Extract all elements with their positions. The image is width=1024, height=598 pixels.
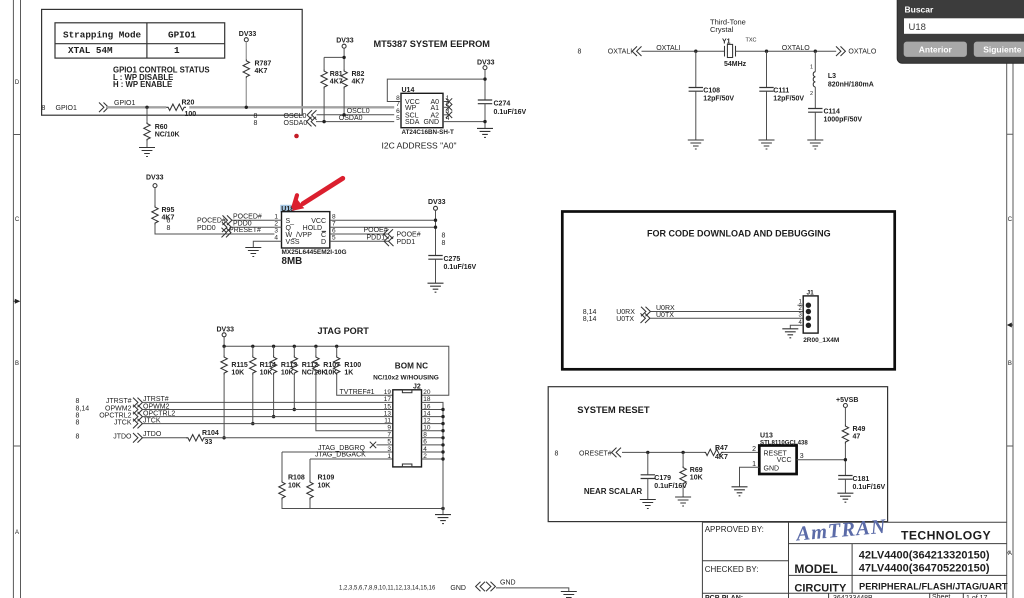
J1 pin 1 <box>798 300 812 308</box>
op-amp U14 AT24C16BN-SH-T body <box>401 87 443 128</box>
junction GPIO1/R60 <box>145 106 148 109</box>
junction C108 <box>694 50 697 53</box>
sheet frame right border <box>1007 0 1013 598</box>
svg-text:8,14: 8,14 <box>583 316 597 323</box>
connector chevron U0TX <box>641 313 650 323</box>
wire OSCL0 to U14 SCL <box>317 114 395 116</box>
U14 pin 6 SCL <box>396 108 419 119</box>
wire R60 to ground <box>146 141 148 148</box>
svg-text:VSS: VSS <box>286 239 300 246</box>
U18 pin 8 VCC <box>311 214 435 225</box>
svg-text:1: 1 <box>174 45 180 56</box>
svg-text:OXTALO: OXTALO <box>848 49 876 56</box>
svg-text:5: 5 <box>332 235 336 242</box>
junction VCC/R49 <box>844 458 847 461</box>
svg-text:TECHNOLOGY: TECHNOLOGY <box>901 529 991 543</box>
svg-text:R115: R115 <box>231 362 247 369</box>
wire JTDO to R104 <box>142 437 186 439</box>
title block grid <box>702 522 1006 598</box>
svg-text:8: 8 <box>76 398 80 405</box>
svg-text:1000pF/50V: 1000pF/50V <box>824 116 863 123</box>
U18 pin 5 D <box>321 235 389 246</box>
svg-text:C: C <box>1008 217 1013 223</box>
svg-text:3: 3 <box>274 227 278 234</box>
resistor R82 4K7 <box>341 70 365 89</box>
svg-text:8: 8 <box>76 412 80 419</box>
svg-text:TVTREF#1: TVTREF#1 <box>340 389 375 396</box>
svg-text:SDA: SDA <box>405 119 420 126</box>
svg-text:ORESET#: ORESET# <box>579 451 612 458</box>
ground (R69) <box>675 497 691 506</box>
connector chevron JTRST# <box>133 398 142 408</box>
svg-text:4K7: 4K7 <box>715 454 728 461</box>
wire R112 to OPWM2 row <box>293 375 295 410</box>
svg-text:4: 4 <box>446 115 450 122</box>
wire DV33 rail to R81/R82 <box>324 48 344 69</box>
svg-text:Siguiente: Siguiente <box>983 44 1022 54</box>
svg-text:R787: R787 <box>255 61 272 68</box>
resistor R109 10K <box>307 475 335 500</box>
annotation red arrow pointing to U18 <box>292 178 343 211</box>
flash U18 MX25L6445 body <box>282 212 330 248</box>
svg-text:C108: C108 <box>703 88 720 95</box>
svg-text:8: 8 <box>76 434 80 441</box>
search dialog input field <box>904 18 1024 34</box>
svg-text:MT5387 SYSTEM EEPROM: MT5387 SYSTEM EEPROM <box>374 39 491 49</box>
svg-text:FOR CODE DOWNLOAD AND DEBUGGIN: FOR CODE DOWNLOAD AND DEBUGGING <box>647 229 831 239</box>
wire R108/R109 to ground bus <box>282 500 443 509</box>
title Third-Tone Crystal <box>710 17 746 34</box>
U18 pin 7 HOLD_ <box>303 221 436 232</box>
capacitor C114 1000pF/50V <box>808 87 862 140</box>
wire ORESET# to U13 pin 2 <box>622 451 759 453</box>
svg-text:C: C <box>15 217 20 223</box>
connector chevron OXTALI <box>632 46 641 56</box>
J2 left pin numbers <box>384 389 392 460</box>
svg-text:NEAR SCALAR: NEAR SCALAR <box>584 487 642 496</box>
svg-text:GND: GND <box>764 465 780 472</box>
svg-text:1,2,3,5,6,7,8,9,10,11,12,13,14: 1,2,3,5,6,7,8,9,10,11,12,13,14,15,16 <box>339 586 436 592</box>
resistor R113 10K <box>270 346 297 376</box>
svg-text:I2C ADDRESS "A0": I2C ADDRESS "A0" <box>382 140 457 150</box>
svg-text:13: 13 <box>384 410 392 417</box>
junction rail R114 <box>251 345 254 348</box>
wire R100 to TVTREF#1 / J2 pin 19 <box>337 375 393 396</box>
junction bus pin16 <box>441 408 444 411</box>
wire PDD0 to U18 pin2 <box>231 226 274 228</box>
svg-text:33: 33 <box>205 439 213 446</box>
junction rail R100 <box>335 345 338 348</box>
power DV33 (R787) <box>239 31 257 42</box>
junction bus pin12 <box>441 422 444 425</box>
U14 pin 7 WP <box>396 101 416 112</box>
crystal Y1 54MHz <box>722 38 757 68</box>
ground (R60) <box>139 148 155 157</box>
U14 pin 1 A0 no-connect <box>430 95 452 106</box>
wire JTRST# to J2 pin 17 <box>142 401 392 403</box>
svg-text:JTCK: JTCK <box>114 419 132 426</box>
svg-text:6: 6 <box>332 227 336 234</box>
svg-text:VCC: VCC <box>311 218 326 225</box>
ground (U13 GND) <box>732 487 748 496</box>
wire GND net <box>496 588 569 592</box>
U14 pin 5 SDA <box>396 115 420 126</box>
svg-text:OXTALO: OXTALO <box>782 45 810 52</box>
svg-text:3: 3 <box>387 446 391 453</box>
junction bus pin14 <box>441 415 444 418</box>
svg-text:VCC: VCC <box>777 457 792 464</box>
svg-text:TXC: TXC <box>746 38 757 44</box>
svg-text:H : WP ENABLE: H : WP ENABLE <box>113 80 172 89</box>
junction R115/JTDO <box>222 436 225 439</box>
svg-text:POCED#: POCED# <box>197 218 226 225</box>
wire Y1 to OXTALO <box>736 50 837 52</box>
svg-text:SYSTEM RESET: SYSTEM RESET <box>577 404 650 415</box>
svg-text:5: 5 <box>387 439 391 446</box>
connector chevron OPCTRL2 <box>133 412 142 422</box>
svg-text:10K: 10K <box>288 483 301 490</box>
svg-text:15: 15 <box>384 403 392 410</box>
resistor R107 10K <box>313 346 340 376</box>
junction bus pin8 <box>441 436 444 439</box>
svg-text:C274: C274 <box>494 101 511 108</box>
capacitor C275 0.1uF/16V <box>428 256 476 284</box>
svg-text:1: 1 <box>810 65 813 71</box>
J1 pin 3 <box>798 313 811 321</box>
svg-text:R104: R104 <box>202 430 219 437</box>
junction C179 <box>646 451 649 454</box>
wire JTCK to J2 pin 11 <box>142 423 392 425</box>
frame left arrow marker <box>13 299 20 304</box>
svg-text:C: C <box>321 232 326 239</box>
debug section box <box>562 212 894 370</box>
svg-text:U18: U18 <box>909 22 926 33</box>
wire C274 to ground <box>484 104 486 129</box>
frame right arrow marker <box>1007 323 1013 328</box>
svg-text:B: B <box>15 361 19 367</box>
U13 pin 3 VCC <box>777 453 846 464</box>
wire DV33 down to C274 <box>484 70 486 100</box>
svg-text:8: 8 <box>167 225 171 232</box>
svg-text:8: 8 <box>254 120 258 127</box>
connector chevron JTCK <box>133 419 142 429</box>
ground (C179) <box>640 500 656 509</box>
svg-text:A: A <box>15 530 19 536</box>
junction C111 <box>765 50 768 53</box>
connector chevron GND left <box>476 582 485 592</box>
svg-text:OSDA0: OSDA0 <box>284 120 308 127</box>
junction HOLD rail <box>434 226 437 229</box>
wire OPCTRL2 to J2 pin 13 <box>142 416 392 418</box>
junction bus pin10 <box>441 429 444 432</box>
svg-text:4K7: 4K7 <box>352 79 365 86</box>
svg-text:U0TX: U0TX <box>616 316 634 323</box>
inductor L3 820nH/180mA <box>810 51 874 97</box>
no-connect X J2 pin 5 <box>370 442 393 448</box>
svg-text:9: 9 <box>387 425 391 432</box>
power DV33 (U18/C275) <box>428 199 446 210</box>
wire U0TX to J1 pin 3 <box>650 317 803 319</box>
svg-text:L3: L3 <box>828 73 836 80</box>
svg-text:GPIO1: GPIO1 <box>56 105 78 112</box>
ground (GND net) <box>561 592 577 598</box>
ground (C275) <box>428 283 444 292</box>
wire POCED# to U18 pin1 <box>232 219 275 221</box>
svg-text:WP: WP <box>405 105 417 112</box>
J1 pin 4 <box>790 320 811 329</box>
svg-text:A1: A1 <box>430 105 439 112</box>
ground (C114) <box>807 140 823 149</box>
svg-text:DV33: DV33 <box>336 38 354 45</box>
svg-text:AT24C16BN-SH-T: AT24C16BN-SH-T <box>402 129 455 136</box>
svg-text:R100: R100 <box>344 362 361 369</box>
resistor R114 10K <box>250 346 276 376</box>
svg-text:R47: R47 <box>715 445 728 452</box>
wire R81 to OSDA0 <box>323 89 325 122</box>
svg-text:2: 2 <box>752 446 756 453</box>
svg-text:DV33: DV33 <box>239 31 257 38</box>
power DV33 (R81/R82) <box>336 38 354 49</box>
svg-text:PRESET#: PRESET# <box>229 227 261 234</box>
wire DV33 to R787 <box>245 42 247 60</box>
connector chevron OPWM2 <box>133 405 142 415</box>
wire R113 to OPCTRL2 row <box>273 375 275 417</box>
svg-text:R20: R20 <box>182 100 195 107</box>
svg-text:OSCL0: OSCL0 <box>347 108 370 115</box>
connector chevron U0RX <box>641 307 650 317</box>
svg-text:2: 2 <box>810 91 813 97</box>
resistor R20 100 <box>166 100 196 119</box>
junction R82/OSCL0 <box>342 113 345 116</box>
svg-text:54MHz: 54MHz <box>724 61 747 68</box>
junction rail R107 <box>314 345 317 348</box>
svg-text:APPROVED BY:: APPROVED BY: <box>705 525 764 534</box>
power DV33 (JTAG rail) <box>217 326 235 337</box>
U18 pin 6 C <box>321 227 389 238</box>
U13 pin 1 GND <box>740 461 780 487</box>
junction rail R115 <box>222 345 225 348</box>
svg-text:PDD1: PDD1 <box>367 234 386 241</box>
svg-text:R60: R60 <box>155 124 168 131</box>
U18 search highlight <box>280 205 294 213</box>
svg-text:8: 8 <box>42 105 46 112</box>
wire R107 to J2 pin 9 <box>316 375 393 431</box>
junction R82 top <box>342 56 345 59</box>
connector chevron ORESET# <box>612 448 621 458</box>
svg-text:+5VSB: +5VSB <box>836 397 858 404</box>
reset IC U13 body <box>759 446 796 475</box>
svg-text:10K: 10K <box>690 475 703 482</box>
resistor R81 4K7 <box>321 70 343 89</box>
svg-text:XTAL 54M: XTAL 54M <box>68 45 113 56</box>
svg-text:3: 3 <box>800 453 804 460</box>
svg-text:8MB: 8MB <box>282 256 303 267</box>
resistor R100 1K <box>334 346 362 376</box>
svg-text:NC/10x2 W/HOUSING: NC/10x2 W/HOUSING <box>373 374 439 381</box>
svg-text:DV33: DV33 <box>146 175 164 182</box>
capacitor C179 0.1uF/16V <box>641 452 688 499</box>
svg-text:10K: 10K <box>281 370 294 377</box>
svg-text:10K: 10K <box>325 370 338 377</box>
svg-text:JTAG_DBGACK: JTAG_DBGACK <box>315 451 366 458</box>
junction DV33/VCC rail <box>483 77 486 80</box>
search dialog button Siguiente <box>974 42 1024 57</box>
svg-text:POCED#: POCED# <box>233 213 262 220</box>
junction R69 <box>681 451 684 454</box>
svg-text:1: 1 <box>274 214 278 221</box>
svg-text:47: 47 <box>853 434 861 441</box>
svg-text:BOM NC: BOM NC <box>395 362 428 371</box>
svg-text:8: 8 <box>254 113 258 120</box>
wire +5VSB to R49 <box>844 408 846 425</box>
svg-text:GPIO1: GPIO1 <box>168 30 196 41</box>
wire DV33 to C275 <box>435 210 437 255</box>
wire R115 to JTDO row <box>223 375 225 438</box>
svg-text:DV33: DV33 <box>217 326 235 333</box>
svg-text:C179: C179 <box>654 475 671 482</box>
U18 pin 1 S_ <box>274 214 294 225</box>
connector chevron GND right <box>486 582 495 592</box>
U14 pin 4 GND <box>423 115 485 126</box>
connector chevron OSDA0 <box>307 117 316 127</box>
svg-text:0.1uF/16V: 0.1uF/16V <box>444 264 477 271</box>
svg-text:Anterior: Anterior <box>919 44 953 54</box>
resistor R60 NC/10K <box>144 122 180 141</box>
svg-text:0.1uF/16V: 0.1uF/16V <box>494 109 527 116</box>
svg-text:R49: R49 <box>853 426 866 433</box>
svg-text:10K: 10K <box>318 483 331 490</box>
U13 pin 2 RESET <box>752 446 787 458</box>
svg-text:R82: R82 <box>352 71 365 78</box>
svg-text:NC/10K: NC/10K <box>302 370 327 377</box>
wire DV33 pull-up rail <box>224 337 449 396</box>
U18 pin 3 W_/VPP <box>274 227 312 238</box>
connector chevron GPIO1 <box>99 103 108 113</box>
svg-text:OSCL0: OSCL0 <box>284 113 307 120</box>
svg-text:Buscar: Buscar <box>905 5 935 15</box>
junction rail R113 <box>272 345 275 348</box>
ground (C181) <box>837 493 853 502</box>
svg-text:0.1uF/16V: 0.1uF/16V <box>853 484 886 491</box>
capacitor C274 0.1uF/16V <box>478 100 527 116</box>
resistor R49 47 <box>842 425 865 444</box>
wire OSDA0 to U14 SDA <box>316 121 394 123</box>
junction bus pin2 <box>441 457 444 460</box>
junction bus pin4 <box>441 450 444 453</box>
svg-text:OPWM2: OPWM2 <box>105 405 132 412</box>
capacitor C108 12pF/50V <box>689 51 735 140</box>
svg-text:Strapping Mode: Strapping Mode <box>63 30 142 41</box>
svg-text:PDD0: PDD0 <box>197 225 216 232</box>
wire R49 to C181 <box>844 444 846 476</box>
ground (J1 pin 4) <box>782 329 798 338</box>
svg-text:JTDO: JTDO <box>143 431 162 438</box>
svg-text:OPCTRL2: OPCTRL2 <box>99 412 131 419</box>
connector chevron POOE# <box>384 229 393 239</box>
svg-text:R81: R81 <box>330 71 343 78</box>
svg-text:7: 7 <box>387 432 391 439</box>
svg-text:MODEL: MODEL <box>794 562 837 576</box>
svg-text:GND: GND <box>500 580 516 587</box>
svg-text:JTAG PORT: JTAG PORT <box>318 326 370 336</box>
ground (C111) <box>759 140 775 149</box>
capacitor C181 0.1uF/16V <box>838 476 885 494</box>
svg-text:CIRCUITY: CIRCUITY <box>794 583 847 595</box>
resistor R69 10K <box>680 452 703 497</box>
annotation red dot <box>294 134 299 139</box>
power DV33 (C274) <box>477 60 495 70</box>
svg-text:7: 7 <box>396 101 400 108</box>
svg-text:100: 100 <box>185 111 197 118</box>
resistor R47 4K7 <box>704 445 728 461</box>
svg-text:8: 8 <box>442 240 446 247</box>
junction rail R112 <box>293 345 296 348</box>
U18 pin 4 VSS <box>253 235 300 248</box>
junction ground bus <box>441 507 444 510</box>
svg-text:B: B <box>1008 361 1012 367</box>
svg-text:R95: R95 <box>162 207 175 214</box>
svg-text:OSDA0: OSDA0 <box>339 115 363 122</box>
svg-text:8: 8 <box>555 451 559 458</box>
svg-text:C114: C114 <box>824 108 840 115</box>
strapping mode section box <box>42 9 303 115</box>
svg-text:19: 19 <box>384 389 392 396</box>
svg-text:42LV4400(364213320150): 42LV4400(364213320150) <box>859 550 990 562</box>
svg-text:8,14: 8,14 <box>76 405 90 412</box>
wire OXTALI to Y1 <box>642 50 725 52</box>
svg-text:GND: GND <box>450 585 466 592</box>
ground (JTAG bus) <box>435 509 451 524</box>
svg-text:820nH/180mA: 820nH/180mA <box>828 82 874 89</box>
svg-text:1: 1 <box>387 453 391 460</box>
junction R81/OSDA0 <box>322 120 325 123</box>
wire R82 to OSCL0 <box>343 89 345 115</box>
connector chevron PRESET# <box>222 228 231 238</box>
svg-text:R69: R69 <box>690 467 703 474</box>
svg-text:R113: R113 <box>281 362 297 369</box>
resistor R95 4K7 <box>152 206 175 225</box>
connector chevron POCED# <box>223 215 232 225</box>
svg-text:8: 8 <box>167 218 171 225</box>
connector chevron OSCL0 <box>307 110 316 120</box>
wire GPIO1 to R60 <box>146 107 148 122</box>
junction R114/JTCK <box>251 422 254 425</box>
ground (C108) <box>688 140 704 149</box>
power +5VSB <box>836 397 858 408</box>
svg-text:CHECKED BY:: CHECKED BY: <box>705 565 759 574</box>
svg-text:JTDO: JTDO <box>113 434 132 441</box>
junction L3 <box>814 50 817 53</box>
svg-text:8: 8 <box>442 232 446 239</box>
svg-text:2R00_1X4M: 2R00_1X4M <box>803 337 839 344</box>
svg-text:C181: C181 <box>853 476 870 483</box>
svg-text:0.1uF/16V: 0.1uF/16V <box>654 483 687 490</box>
connector chevron PDD1 <box>384 237 393 247</box>
wire pin1 down to R109 <box>309 459 311 481</box>
svg-text:10K: 10K <box>231 370 244 377</box>
svg-text:PERIPHERAL/FLASH/JTAG/UART: PERIPHERAL/FLASH/JTAG/UART <box>859 581 1008 591</box>
U14 pin 3 A2 no-connect <box>430 108 452 119</box>
svg-text:DV33: DV33 <box>428 199 446 206</box>
resistor R115 10K <box>221 346 248 376</box>
junction R112/OPWM2 <box>293 408 296 411</box>
svg-text:PDD1: PDD1 <box>397 239 416 246</box>
svg-text:4: 4 <box>274 235 278 242</box>
wire GPIO1 (gray) to U14 WP <box>106 106 394 108</box>
svg-text:1K: 1K <box>344 370 353 377</box>
U14 pin 8 VCC <box>387 79 485 106</box>
wire pin3 down to R108 <box>281 452 283 481</box>
